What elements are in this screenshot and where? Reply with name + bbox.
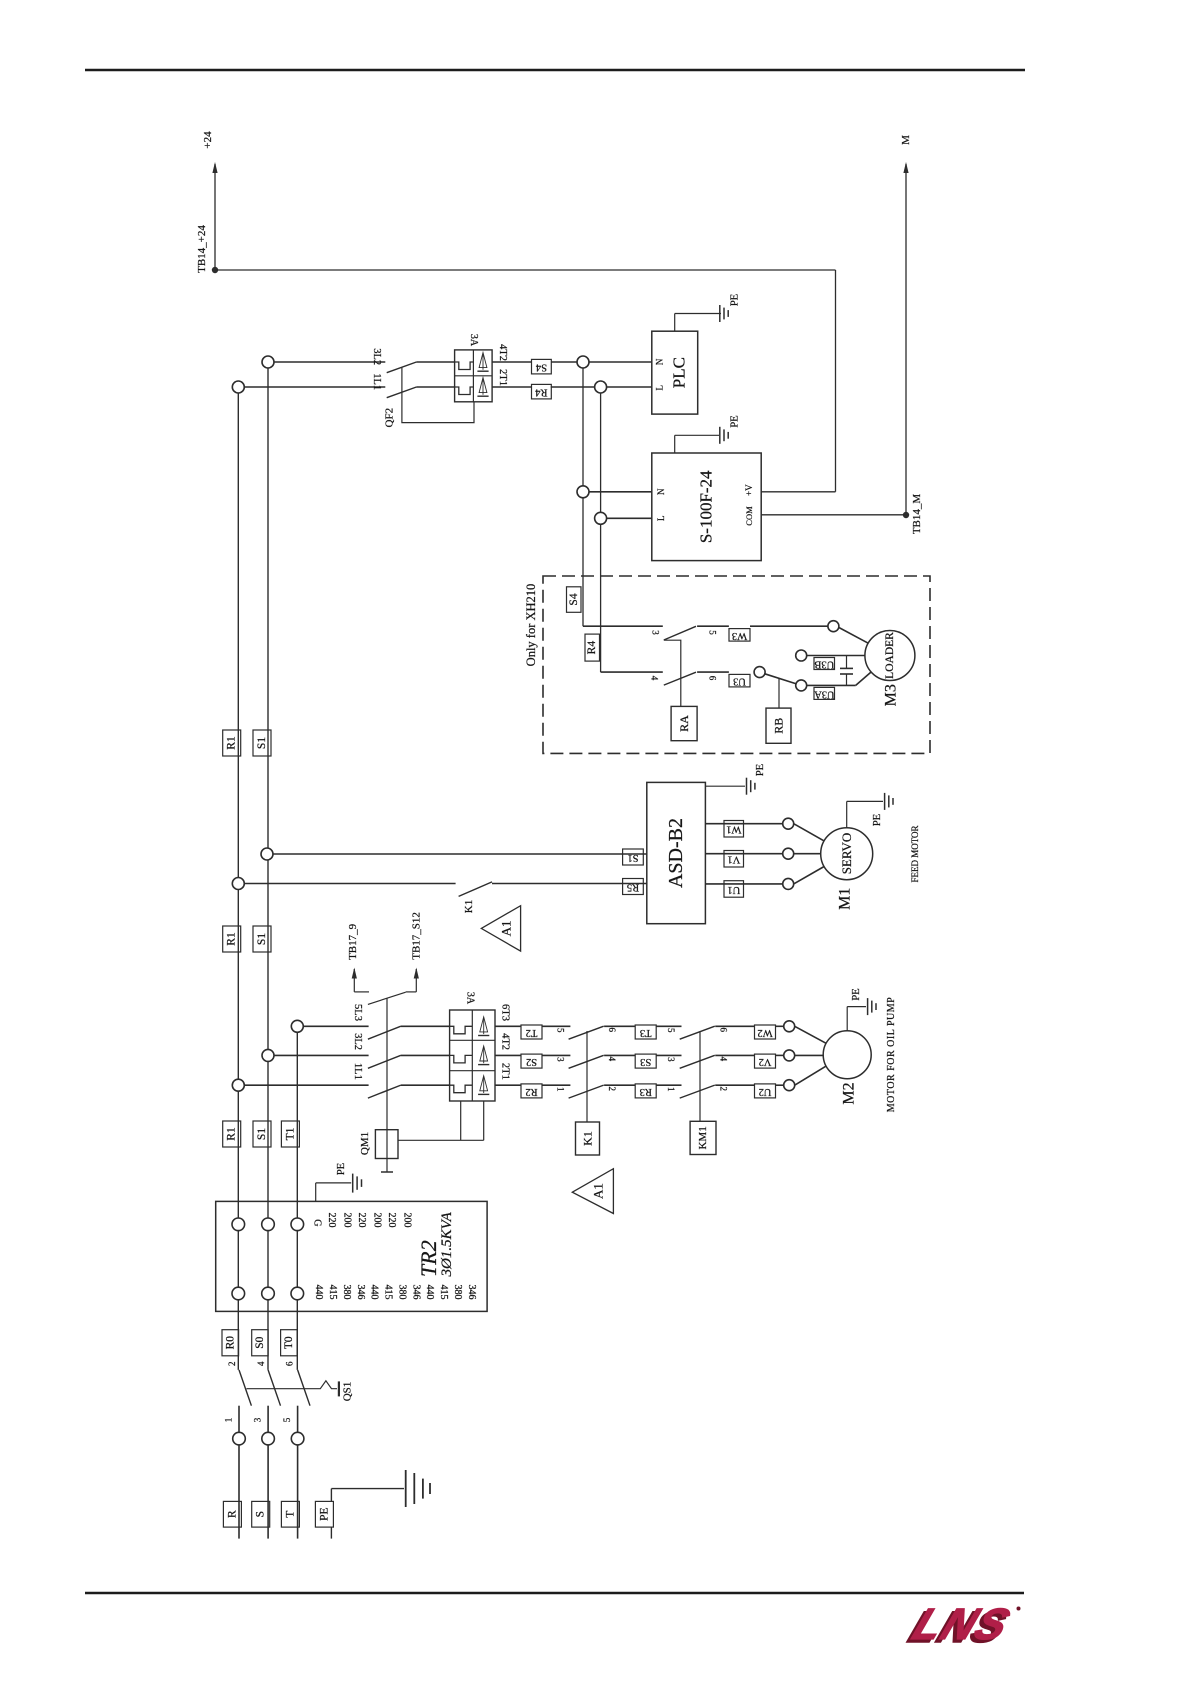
svg-text:T: T bbox=[284, 1511, 296, 1518]
svg-text:M: M bbox=[900, 135, 912, 145]
svg-text:PE: PE bbox=[755, 764, 766, 776]
svg-text:R2: R2 bbox=[525, 1086, 537, 1097]
svg-text:S4: S4 bbox=[568, 593, 580, 605]
svg-text:R3: R3 bbox=[640, 1086, 652, 1097]
svg-text:U2: U2 bbox=[759, 1086, 772, 1097]
svg-text:5: 5 bbox=[666, 1028, 676, 1033]
svg-text:3A: 3A bbox=[465, 992, 476, 1005]
svg-text:440: 440 bbox=[424, 1285, 435, 1300]
svg-text:S1: S1 bbox=[256, 737, 268, 749]
svg-text:TB14_M: TB14_M bbox=[911, 494, 923, 535]
svg-text:346: 346 bbox=[355, 1285, 366, 1300]
svg-text:L: L bbox=[656, 516, 666, 522]
svg-text:A1: A1 bbox=[499, 920, 514, 936]
svg-text:PE: PE bbox=[318, 1507, 330, 1520]
svg-text:6: 6 bbox=[607, 1028, 617, 1033]
svg-text:N: N bbox=[656, 488, 666, 495]
svg-text:2T1: 2T1 bbox=[500, 1063, 511, 1080]
svg-text:T1: T1 bbox=[284, 1127, 296, 1140]
svg-text:PLC: PLC bbox=[670, 357, 689, 388]
svg-text:4: 4 bbox=[607, 1057, 617, 1062]
svg-text:2: 2 bbox=[607, 1086, 617, 1091]
svg-text:S1: S1 bbox=[256, 933, 268, 945]
svg-text:440: 440 bbox=[369, 1285, 380, 1300]
svg-text:1L1: 1L1 bbox=[352, 1063, 363, 1080]
svg-text:A1: A1 bbox=[591, 1183, 606, 1199]
svg-text:1: 1 bbox=[666, 1087, 676, 1092]
svg-text:LNS: LNS bbox=[906, 1599, 1017, 1648]
svg-text:M1: M1 bbox=[837, 888, 854, 910]
svg-text:S1: S1 bbox=[627, 852, 638, 863]
svg-text:R4: R4 bbox=[535, 387, 548, 398]
svg-text:W2: W2 bbox=[757, 1027, 772, 1038]
svg-text:PE: PE bbox=[336, 1163, 347, 1175]
svg-text:QF2: QF2 bbox=[384, 408, 396, 428]
svg-text:FEED MOTOR: FEED MOTOR bbox=[910, 825, 920, 882]
svg-text:N: N bbox=[655, 358, 665, 365]
svg-text:TB17_9: TB17_9 bbox=[347, 923, 359, 960]
svg-text:MOTOR FOR OIL PUMP: MOTOR FOR OIL PUMP bbox=[886, 997, 897, 1112]
svg-text:5: 5 bbox=[282, 1417, 292, 1422]
svg-text:415: 415 bbox=[383, 1285, 394, 1300]
svg-text:R1: R1 bbox=[226, 1127, 238, 1141]
svg-text:+V: +V bbox=[744, 484, 754, 496]
svg-text:R0: R0 bbox=[224, 1336, 236, 1350]
svg-text:4T2: 4T2 bbox=[500, 1033, 511, 1050]
svg-text:V2: V2 bbox=[759, 1056, 772, 1067]
svg-text:ASD-B2: ASD-B2 bbox=[665, 818, 687, 888]
svg-text:W1: W1 bbox=[726, 824, 741, 835]
svg-text:TB14_+24: TB14_+24 bbox=[196, 225, 208, 273]
svg-text:T0: T0 bbox=[283, 1336, 295, 1349]
svg-text:220: 220 bbox=[326, 1213, 337, 1228]
svg-text:G: G bbox=[312, 1219, 323, 1226]
svg-text:220: 220 bbox=[386, 1213, 397, 1228]
svg-text:S2: S2 bbox=[526, 1056, 537, 1067]
svg-text:R1: R1 bbox=[226, 736, 238, 750]
svg-text:1: 1 bbox=[224, 1418, 234, 1423]
svg-text:TR2: TR2 bbox=[416, 1240, 441, 1277]
svg-text:S1: S1 bbox=[256, 1128, 268, 1140]
svg-text:346: 346 bbox=[410, 1285, 421, 1300]
svg-text:6: 6 bbox=[708, 676, 718, 681]
svg-text:KM1: KM1 bbox=[697, 1126, 709, 1149]
svg-text:2: 2 bbox=[718, 1086, 728, 1091]
svg-text:K1: K1 bbox=[463, 900, 475, 913]
svg-text:RA: RA bbox=[677, 715, 691, 732]
svg-text:T2: T2 bbox=[526, 1027, 538, 1038]
svg-text:PE: PE bbox=[730, 415, 741, 427]
svg-text:6T3: 6T3 bbox=[500, 1004, 511, 1021]
svg-text:2: 2 bbox=[227, 1361, 237, 1366]
svg-text:415: 415 bbox=[327, 1285, 338, 1300]
svg-text:PE: PE bbox=[730, 294, 741, 306]
svg-text:S0: S0 bbox=[254, 1336, 266, 1348]
svg-text:COM: COM bbox=[744, 506, 754, 526]
svg-text:200: 200 bbox=[372, 1213, 383, 1228]
svg-text:220: 220 bbox=[356, 1213, 367, 1228]
svg-text:S3: S3 bbox=[640, 1056, 651, 1067]
svg-text:3L2: 3L2 bbox=[352, 1033, 363, 1050]
svg-text:QM1: QM1 bbox=[359, 1132, 371, 1155]
svg-text:R: R bbox=[226, 1510, 238, 1518]
svg-text:R4: R4 bbox=[586, 641, 598, 655]
svg-text:4: 4 bbox=[718, 1057, 728, 1062]
svg-text:4T2: 4T2 bbox=[497, 344, 508, 361]
svg-text:U3: U3 bbox=[733, 676, 746, 687]
svg-text:5: 5 bbox=[556, 1028, 566, 1033]
svg-text:415: 415 bbox=[438, 1285, 449, 1300]
svg-text:S: S bbox=[255, 1511, 267, 1517]
svg-text:5L3: 5L3 bbox=[352, 1004, 363, 1021]
svg-text:380: 380 bbox=[452, 1285, 463, 1300]
svg-text:TB17_S12: TB17_S12 bbox=[410, 912, 422, 960]
svg-text:3: 3 bbox=[253, 1417, 263, 1422]
svg-text:3: 3 bbox=[556, 1057, 566, 1062]
svg-text:3: 3 bbox=[650, 630, 660, 635]
svg-text:3Ø1.5KVA: 3Ø1.5KVA bbox=[439, 1211, 455, 1277]
svg-text:M3: M3 bbox=[882, 684, 899, 706]
svg-text:3L2: 3L2 bbox=[371, 348, 382, 365]
svg-text:V1: V1 bbox=[727, 854, 740, 865]
svg-text:K1: K1 bbox=[581, 1131, 595, 1146]
svg-text:+24: +24 bbox=[202, 131, 214, 149]
svg-text:Only for XH210: Only for XH210 bbox=[524, 584, 538, 667]
svg-text:6: 6 bbox=[285, 1361, 295, 1366]
svg-text:R5: R5 bbox=[627, 882, 639, 893]
svg-text:4: 4 bbox=[650, 676, 660, 681]
svg-text:QS1: QS1 bbox=[342, 1382, 354, 1402]
svg-text:380: 380 bbox=[341, 1285, 352, 1300]
svg-text:440: 440 bbox=[313, 1285, 324, 1300]
svg-text:200: 200 bbox=[342, 1213, 353, 1228]
svg-text:346: 346 bbox=[466, 1285, 477, 1300]
svg-text:L: L bbox=[655, 385, 665, 391]
svg-text:S4: S4 bbox=[535, 362, 547, 373]
svg-text:W3: W3 bbox=[732, 630, 747, 641]
svg-text:4: 4 bbox=[256, 1361, 266, 1366]
svg-text:SERVO: SERVO bbox=[839, 833, 854, 875]
svg-text:1L1: 1L1 bbox=[371, 373, 382, 390]
svg-text:T3: T3 bbox=[640, 1027, 652, 1038]
svg-text:2T1: 2T1 bbox=[497, 369, 508, 386]
svg-text:U3A: U3A bbox=[814, 688, 835, 699]
svg-text:U3B: U3B bbox=[814, 659, 834, 670]
svg-text:3A: 3A bbox=[468, 334, 479, 347]
svg-text:6: 6 bbox=[718, 1028, 728, 1033]
svg-text:PE: PE bbox=[872, 814, 883, 826]
svg-text:LOADER: LOADER bbox=[884, 632, 896, 679]
svg-text:5: 5 bbox=[708, 630, 718, 635]
svg-text:S-100F-24: S-100F-24 bbox=[697, 470, 716, 543]
svg-text:PE: PE bbox=[851, 988, 862, 1000]
svg-text:U1: U1 bbox=[727, 884, 740, 895]
svg-text:RB: RB bbox=[772, 718, 786, 734]
svg-text:3: 3 bbox=[666, 1057, 676, 1062]
svg-text:200: 200 bbox=[402, 1213, 413, 1228]
svg-text:380: 380 bbox=[396, 1285, 407, 1300]
svg-text:R1: R1 bbox=[226, 932, 238, 946]
svg-text:M2: M2 bbox=[841, 1082, 858, 1104]
svg-text:1: 1 bbox=[556, 1087, 566, 1092]
